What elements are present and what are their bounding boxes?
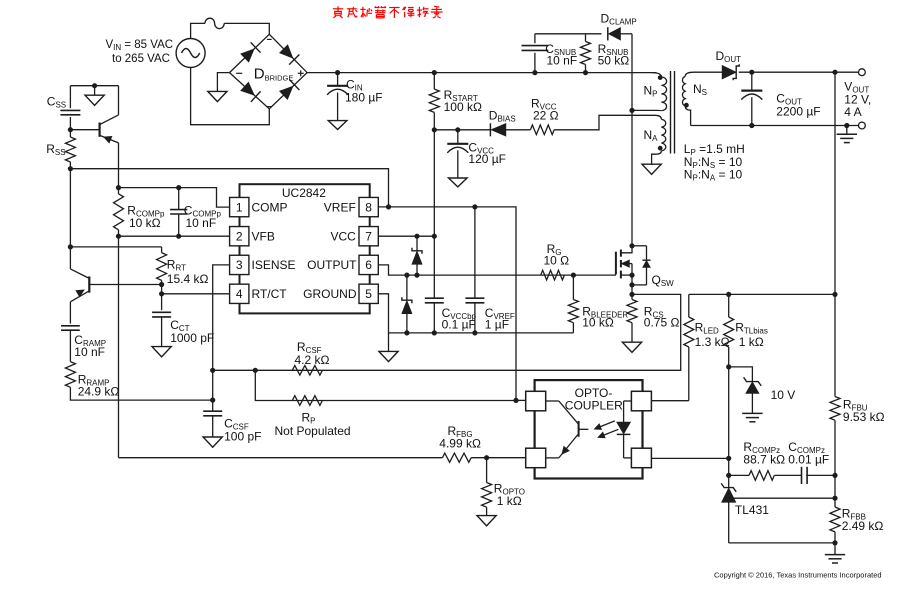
node secondary ground: [844, 123, 849, 128]
capacitor C_SS: [60, 86, 80, 130]
node primary bottom / drain: [629, 108, 634, 113]
diode D_BIAS: [490, 123, 530, 136]
pin box 8: [359, 197, 378, 216]
wire RT/CT to pin 4: [162, 293, 230, 295]
node rail-C_SNUB: [532, 70, 537, 75]
wire bias line: [434, 129, 490, 131]
resistor R_FBB: [830, 475, 840, 543]
svg-text:7: 7: [365, 230, 372, 244]
terminal V_OUT-: [859, 122, 866, 129]
svg-text:COMP: COMP: [252, 200, 288, 214]
node C_OUT bottom: [749, 123, 754, 128]
label R_G 10 Ohm: [544, 242, 570, 268]
diode D_CLAMP: [608, 27, 632, 40]
node divider mid: [832, 496, 837, 501]
wire V_OUT feedback sense down: [834, 72, 836, 294]
pin box 3: [230, 255, 249, 274]
wire VFB down to feedback bottom rail: [118, 236, 120, 458]
label D_CLAMP: [601, 12, 637, 27]
wire R_VCC to N_A top: [554, 115, 655, 130]
wire compensation branch: [729, 474, 749, 476]
node V_OUT sense: [832, 70, 837, 75]
bridge rectifier D_BRIDGE diamond: [230, 34, 308, 109]
label R_FBB 2.49 kOhm: [842, 506, 884, 533]
svg-text:10 Ω: 10 Ω: [544, 254, 570, 268]
label R_CSF 4.2 kOhm: [295, 340, 330, 367]
node compensation-divider: [832, 473, 837, 478]
node R_COMPp bottom: [116, 234, 121, 239]
capacitor C_RAMP: [61, 326, 80, 362]
node gnd rail C_VREF: [472, 330, 477, 335]
node ground stub: [92, 83, 97, 88]
svg-text:10 nF: 10 nF: [547, 53, 578, 67]
phase dot N_P: [658, 75, 663, 80]
node C_COMPp bottom: [176, 234, 181, 239]
node rail-R_SNUB: [583, 70, 588, 75]
ground at C_SS top: [85, 86, 104, 106]
svg-text:2.49 kΩ: 2.49 kΩ: [842, 519, 884, 533]
svg-text:GROUND: GROUND: [303, 287, 357, 301]
ground TL431: [825, 543, 845, 563]
node gnd rail C_VCCbp: [432, 330, 437, 335]
label R_RAMP 24.9 kOhm: [78, 372, 120, 398]
label C_CSF 100 pF: [224, 416, 261, 443]
wire to opto pin: [516, 399, 526, 401]
svg-text:1.3 kΩ: 1.3 kΩ: [695, 335, 730, 349]
wire opto bottom-right to TL431: [651, 457, 728, 459]
resistor R_START: [429, 73, 439, 130]
svg-text:6: 6: [365, 258, 372, 272]
resistor R_RAMP: [65, 362, 75, 388]
svg-text:1: 1: [236, 200, 243, 214]
zener D1 (VCC-OUTPUT): [412, 236, 422, 275]
wire Q1 collector up: [118, 86, 120, 115]
diode D_OUT (schottky): [722, 64, 739, 80]
label C_COMPp 10 nF: [184, 203, 222, 230]
resistor R_CS: [622, 300, 641, 353]
wire Q2 emitter to C_RAMP: [69, 302, 71, 324]
pin box 6: [359, 255, 378, 274]
label L_P and turns ratios: [684, 142, 745, 182]
wire analog ground rail: [389, 332, 574, 334]
red watermark text: [333, 6, 443, 18]
phase dot N_A: [658, 146, 663, 151]
node R_FBU top: [832, 292, 837, 297]
wire TL431 ref to divider: [733, 497, 835, 499]
svg-text:10 V: 10 V: [771, 388, 796, 402]
svg-text:3: 3: [236, 258, 243, 272]
node C_OUT top: [749, 70, 754, 75]
node ISENSE-R_CSF: [210, 368, 215, 373]
svg-text:9.53 kΩ: 9.53 kΩ: [843, 410, 885, 424]
svg-text:Copyright © 2016, Texas Instru: Copyright © 2016, Texas Instruments Inco…: [714, 570, 882, 579]
node R_COMPz tap: [726, 473, 731, 478]
node zener D1 bottom: [414, 273, 419, 278]
wire drain from transformer: [631, 110, 633, 245]
label R_P Not Populated: [275, 410, 351, 438]
label C_SS: [47, 94, 66, 109]
label R_OPTO 1 kOhm: [494, 481, 525, 507]
capacitor C_SNUB: [522, 34, 549, 73]
capacitor C_COMPz: [801, 467, 803, 484]
pin box 7: [359, 227, 378, 246]
wire Q2 collector: [69, 247, 71, 269]
node C_VCCbp top: [432, 234, 437, 239]
svg-text:4 A: 4 A: [844, 105, 861, 119]
wire AC source bottom loop to bridge bottom: [191, 68, 270, 125]
wire secondary return rail: [691, 125, 859, 127]
transistor Q2 (PNP ramp): [70, 269, 161, 302]
label C_VCC 120 uF: [468, 140, 506, 166]
node zener bias: [726, 364, 731, 369]
capacitor C_VREF: [465, 207, 484, 333]
label C_OUT 2200 uF: [776, 92, 820, 119]
wire AC source top to bridge with fuse bump: [191, 18, 270, 38]
resistor R_SS: [65, 130, 75, 169]
wire C_COMPz to feedback divider: [806, 474, 835, 476]
capacitor C_COMPp: [170, 188, 187, 237]
pin box 2: [230, 227, 249, 246]
svg-text:0.1 µF: 0.1 µF: [442, 317, 476, 331]
resistor R_FBU: [830, 294, 840, 475]
IC U1 UC2842 body: [240, 184, 370, 313]
svg-text:10 kΩ: 10 kΩ: [582, 316, 614, 330]
svg-text:VREF: VREF: [324, 200, 356, 214]
pin box 4: [230, 284, 249, 303]
svg-text:88.7 kΩ: 88.7 kΩ: [743, 452, 785, 466]
wire VFB bottom rail to opto: [119, 457, 443, 459]
wire R_P branch: [255, 370, 516, 400]
label R_SNUB 50 kOhm: [598, 42, 630, 67]
label C_IN 180 uF: [345, 78, 383, 105]
wire C_SS top: [70, 85, 118, 87]
svg-text:0.01 µF: 0.01 µF: [788, 452, 829, 466]
node Q2 collector: [68, 244, 73, 249]
wire left vertical down to Q2: [69, 169, 71, 247]
node zener D1 top: [414, 234, 419, 239]
node rail-C_IN: [335, 70, 340, 75]
label D_BRIDGE: [254, 65, 294, 82]
svg-text:10 nF: 10 nF: [74, 345, 105, 359]
transformer core: [671, 71, 675, 154]
opto light arrows: [594, 421, 618, 438]
svg-text:4: 4: [236, 287, 243, 301]
label V_OUT 12 V 4 A: [844, 80, 871, 119]
wire VCC pin7: [378, 235, 434, 237]
label R_CS 0.75 Ohm: [644, 304, 680, 329]
svg-text:1 kΩ: 1 kΩ: [497, 494, 522, 508]
zener D2 (OUTPUT-GND): [402, 275, 412, 333]
label C_RAMP 10 nF: [74, 333, 106, 359]
node opto cathode: [726, 456, 731, 461]
opto pin top-right: [631, 391, 651, 411]
svg-text:8: 8: [365, 200, 372, 214]
node zener D2: [404, 273, 409, 278]
node body diode bottom: [629, 282, 634, 287]
resistor R_FBG: [442, 453, 471, 462]
resistor R_TLbias: [724, 294, 734, 367]
label C_VCCbp 0.1 uF: [442, 306, 477, 331]
capacitor C_CSF: [203, 411, 222, 447]
wire COMP node: [119, 188, 230, 208]
transformer primary N_P: [632, 73, 667, 111]
zener D_Z 10V: [729, 367, 763, 422]
label V_IN = 85 VAC to 265 VAC: [106, 39, 174, 65]
voltage source V_IN (AC): [176, 39, 205, 68]
svg-text:24.9 kΩ: 24.9 kΩ: [78, 384, 120, 398]
svg-text:0.75 Ω: 0.75 Ω: [644, 316, 680, 330]
svg-text:TL431: TL431: [735, 503, 769, 517]
resistor R_LED: [651, 294, 693, 400]
wire R_RAMP to ISENSE branch: [70, 387, 212, 400]
resistor R_SNUB: [581, 34, 591, 73]
label OPTO-COUPLER: [565, 386, 623, 413]
wire VFB node: [119, 235, 230, 237]
terminal V_OUT+: [859, 69, 866, 76]
svg-text:COUPLER: COUPLER: [565, 399, 623, 413]
resistor R_G: [541, 270, 565, 280]
label Q_SW: [652, 273, 675, 288]
svg-text:100 pF: 100 pF: [224, 430, 261, 444]
svg-text:OUTPUT: OUTPUT: [307, 258, 357, 272]
label R_RT 15.4 kOhm: [167, 257, 209, 286]
svg-text:5: 5: [365, 287, 372, 301]
svg-text:22 Ω: 22 Ω: [533, 109, 559, 123]
resistor R_BLEEDER: [568, 275, 578, 333]
TL431 shunt regulator U3: [721, 483, 736, 543]
resistor R_COMPp: [114, 188, 124, 237]
opto pin bottom-left: [526, 448, 546, 468]
node VREF-top rail: [386, 204, 391, 209]
svg-text:2: 2: [236, 230, 243, 244]
label R_COMPp 10 kOhm: [127, 203, 165, 230]
svg-text:180 µF: 180 µF: [345, 91, 383, 105]
label R_START 100 kOhm: [444, 88, 482, 114]
node drain: [629, 243, 634, 248]
wire ISENSE pin3: [213, 265, 230, 370]
svg-text:2200 µF: 2200 µF: [776, 104, 820, 118]
transformer secondary N_S: [682, 72, 694, 125]
svg-text:RT/CT: RT/CT: [252, 287, 288, 301]
svg-text:1000 pF: 1000 pF: [170, 331, 214, 345]
svg-text:15.4 kΩ: 15.4 kΩ: [167, 272, 209, 286]
capacitor C_CT: [152, 312, 171, 357]
opto pin bottom-right: [631, 448, 651, 468]
wire R_RT top: [70, 246, 161, 248]
svg-text:ISENSE: ISENSE: [252, 258, 296, 272]
wire TL431 anode to ground node: [729, 542, 835, 544]
transistor Q1 (PNP soft-start): [70, 115, 118, 143]
wire RT/CT: [161, 285, 163, 311]
resistor R_OPTO: [477, 458, 496, 526]
node R_TLbias: [726, 292, 731, 297]
opto pin top-left: [526, 391, 546, 411]
wire GROUND pin5: [378, 294, 388, 333]
label C_SNUB 10 nF: [545, 42, 577, 67]
body diode of Q_SW: [632, 246, 651, 285]
label R_TLbias 1 kOhm: [735, 321, 768, 349]
label C_CT 1000 pF: [170, 318, 214, 345]
label R_FBU 9.53 kOhm: [843, 397, 885, 424]
label R_LED 1.3 kOhm: [695, 321, 730, 349]
opto LED: [617, 401, 632, 458]
wire R_COMPz to C_COMPz: [774, 474, 801, 476]
wire R_CS node to R_CSF: [213, 294, 681, 370]
capacitor C_VCC: [447, 127, 468, 187]
label N_P: [644, 84, 658, 99]
label D_OUT: [716, 49, 742, 64]
node R_RAMP junction: [210, 398, 215, 403]
svg-text:VFB: VFB: [252, 229, 275, 243]
node R_SS bottom: [68, 166, 73, 171]
resistor R_P: [292, 396, 322, 406]
label C_VREF 1 uF: [485, 306, 515, 331]
node source: [629, 273, 634, 278]
ground at bridge negative: [208, 73, 230, 102]
svg-text:UC2842: UC2842: [282, 186, 326, 200]
pin box 1: [230, 197, 249, 216]
opto phototransistor: [546, 401, 589, 458]
node R_P branch: [253, 368, 258, 373]
wire R_TLbias node down to TL431: [728, 367, 730, 487]
node rail-R_START: [432, 70, 437, 75]
pin box 5: [359, 284, 378, 303]
wire snubber top: [535, 33, 602, 35]
label N_A: [644, 128, 659, 143]
capacitor C_OUT: [741, 72, 762, 125]
resistor R_CSF: [292, 366, 322, 376]
svg-text:100 kΩ: 100 kΩ: [444, 100, 482, 114]
wire N_S top to D_OUT: [694, 71, 722, 73]
svg-text:1 µF: 1 µF: [485, 317, 509, 331]
node VREF-R_P-opto: [513, 398, 518, 403]
ground secondary output: [837, 126, 857, 143]
wire R_FBG to opto pin: [471, 457, 526, 459]
label R_VCC 22 Ohm: [531, 97, 559, 123]
svg-text:120 µF: 120 µF: [468, 152, 506, 166]
node C_COMPp top: [176, 185, 181, 190]
label D_BIAS: [489, 108, 516, 123]
label R_BLEEDER 10 kOhm: [582, 304, 628, 329]
node C_SS / base Q1: [68, 127, 73, 132]
resistor R_COMPz: [749, 471, 774, 481]
transformer auxiliary N_A: [652, 115, 666, 164]
svg-text:VCC: VCC: [330, 229, 356, 243]
ground N_A: [642, 164, 661, 174]
label R_SS: [46, 142, 65, 157]
node R_RT bottom / Q2 base: [159, 282, 164, 287]
svg-text:50 kΩ: 50 kΩ: [598, 53, 630, 67]
wire R_START junction down to VCC pin: [433, 130, 435, 236]
phase dot N_S: [684, 103, 689, 108]
node RT/CT: [159, 291, 164, 296]
ground rail symbol: [379, 333, 398, 362]
node C_VREF branch: [472, 204, 477, 209]
wire VREF pin8: [378, 207, 516, 400]
wire OUTPUT pin6: [378, 265, 616, 275]
svg-text:10 kΩ: 10 kΩ: [129, 216, 161, 230]
transistor Q_SW MOSFET: [616, 246, 632, 300]
svg-text:Not Populated: Not Populated: [275, 424, 351, 438]
svg-text:1 kΩ: 1 kΩ: [739, 335, 764, 349]
node R_CS top: [629, 292, 634, 297]
label N_S: [693, 82, 707, 97]
wire V_OUT sense rail: [689, 293, 835, 295]
node D_BIAS junction: [432, 127, 437, 132]
label C_COMPz 0.01 uF: [788, 440, 829, 467]
node R_FBB bottom: [832, 540, 837, 545]
wire VREF long top rail: [70, 169, 388, 207]
resistor R_RT: [157, 247, 167, 285]
label R_COMPz 88.7 kOhm: [743, 440, 785, 467]
optocoupler U2 body: [535, 380, 643, 478]
capacitor C_VCCbp: [425, 236, 444, 333]
svg-text:to 265 VAC: to 265 VAC: [112, 53, 170, 65]
node gnd rail zener D2: [404, 330, 409, 335]
node R_G right / gate: [571, 273, 576, 278]
capacitor C_IN: [327, 73, 348, 130]
wire D_OUT to output terminal: [739, 71, 859, 73]
wire HV rail: [307, 72, 656, 74]
resistor R_VCC: [530, 125, 554, 135]
node R_COMPp top: [116, 185, 121, 190]
svg-text:10 nF: 10 nF: [186, 216, 217, 230]
node R_OPTO: [484, 455, 489, 460]
wire D_CLAMP down to primary bottom: [631, 34, 633, 111]
svg-text:4.99 kΩ: 4.99 kΩ: [439, 436, 481, 450]
wire ISENSE down to C_CSF: [212, 370, 214, 411]
label R_FBG 4.99 kOhm: [439, 424, 481, 450]
svg-text:4.2 kΩ: 4.2 kΩ: [295, 353, 330, 367]
wire Q1 emitter down to COMP: [118, 143, 120, 188]
